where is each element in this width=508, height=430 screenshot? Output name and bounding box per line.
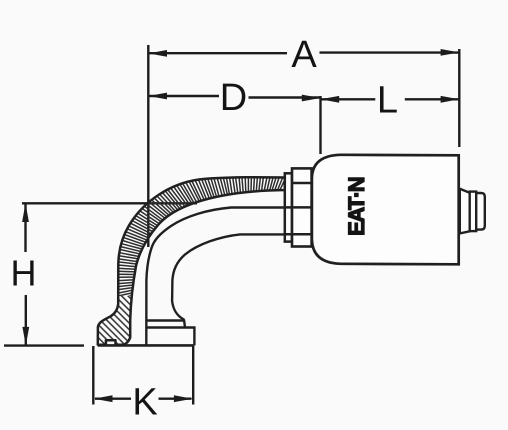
dimension line A [148,49,459,57]
ferrule body [312,155,459,264]
svg-text:K: K [132,382,157,424]
wire: middle tube line (inner wall near) [146,208,284,346]
wire: extension line left (A/D datum) [147,45,149,247]
svg-text:EAT·N: EAT·N [344,177,369,236]
dimension line L [321,96,460,103]
dimension line D [148,93,320,102]
svg-text:A: A [291,34,317,76]
dimension line K [94,395,193,402]
wire: extension line K left [92,346,94,405]
collar facet line 3 [285,233,312,236]
flange plate lower (far side) [146,328,194,346]
nipple segment 1 [460,189,470,234]
dimension line H [22,203,29,345]
hose elbow outer wall: spiral hatch strokes [118,177,286,299]
flange cross-section hatch fill [98,296,132,345]
flange plate upper (far side) [146,321,185,328]
wire: inner tube line (far wall) with flare foot [172,234,285,319]
nipple segment 2 [470,192,477,232]
svg-text:L: L [377,80,398,122]
wire: extension line right (A/L end) [458,49,460,147]
nipple end cap [476,193,485,230]
wire: extension line H bottom [4,344,84,346]
wire: extension line middle (D/L boundary) [319,96,321,154]
hose elbow + flange lip outline [98,177,285,345]
wire: extension line K right [192,346,194,405]
svg-text:H: H [11,253,37,294]
flange bottom face [98,344,195,347]
collar facet line 2 [285,206,312,209]
svg-text:D: D [220,77,247,119]
collar facet line 1 [292,182,312,185]
wire: extension line H top [22,202,197,204]
collar wide ring [292,168,312,246]
collar narrow ring [285,173,292,241]
